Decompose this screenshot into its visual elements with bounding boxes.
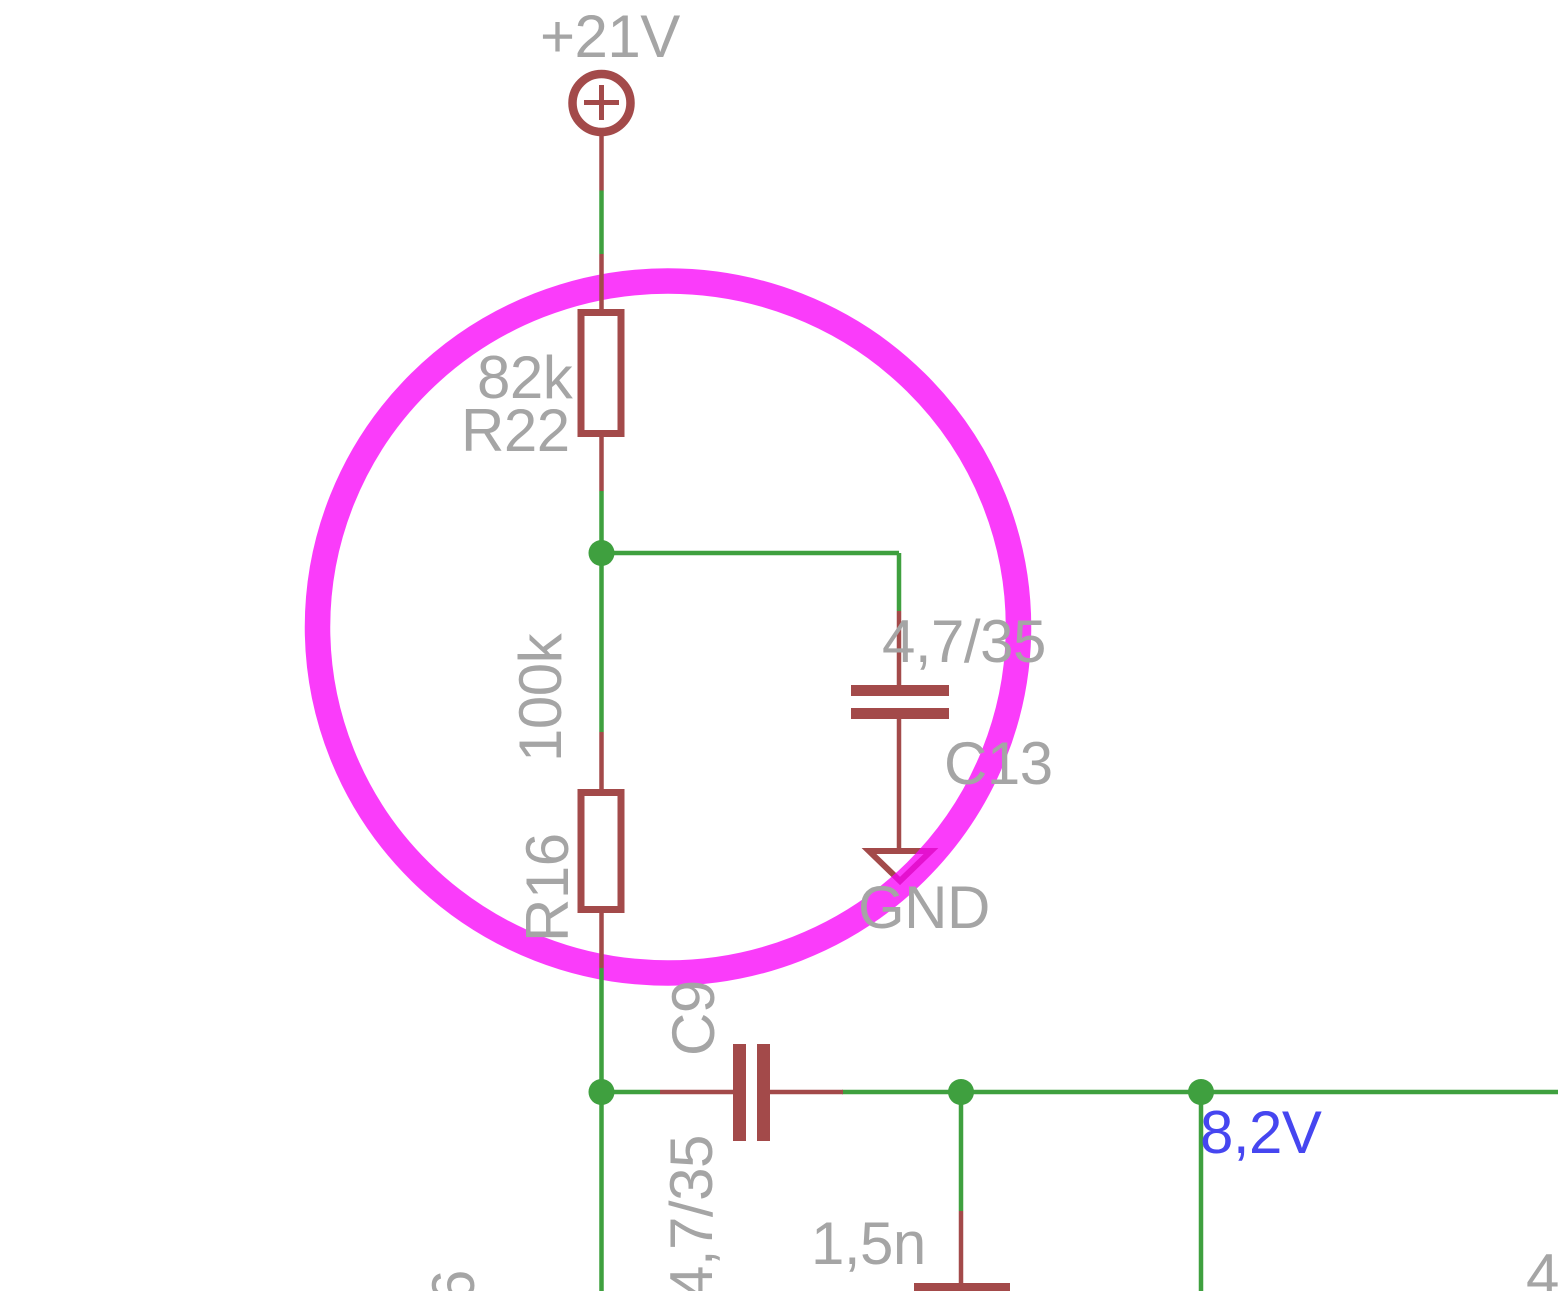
svg-text:6: 6 — [420, 1270, 487, 1291]
svg-text:C13: C13 — [944, 730, 1053, 797]
svg-text:GND: GND — [858, 874, 990, 941]
svg-text:C9: C9 — [660, 980, 727, 1056]
svg-text:R22: R22 — [461, 397, 570, 464]
svg-text:1,5n: 1,5n — [811, 1210, 926, 1277]
svg-text:+21V: +21V — [540, 3, 680, 70]
svg-text:4,7/35: 4,7/35 — [1526, 1242, 1558, 1291]
svg-text:4,7/35: 4,7/35 — [882, 608, 1046, 675]
svg-text:8,2V: 8,2V — [1200, 1099, 1322, 1166]
svg-text:R16: R16 — [514, 833, 581, 942]
svg-text:100k: 100k — [507, 632, 574, 762]
svg-text:4,7/35: 4,7/35 — [658, 1135, 725, 1291]
